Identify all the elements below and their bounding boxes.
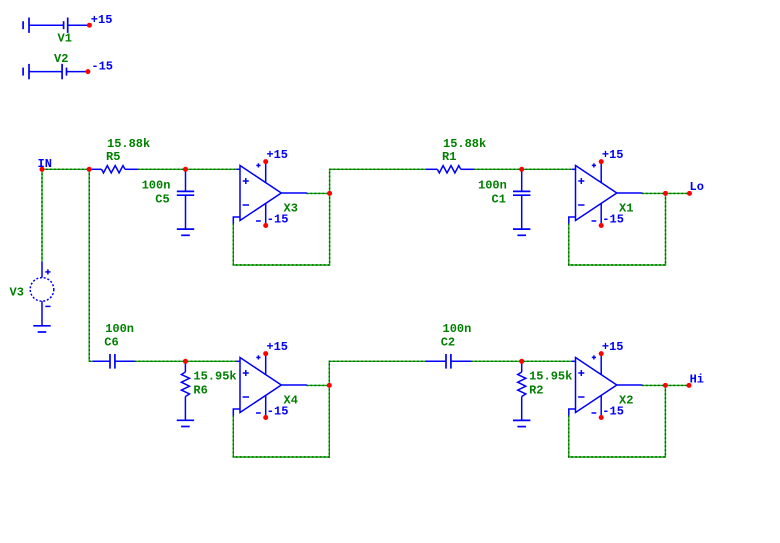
ground (C5) (177, 229, 194, 235)
node Lo terminal (687, 191, 692, 196)
power node +15 (X4) (263, 351, 268, 356)
wire X3 feedback loop (233, 193, 329, 265)
capacitor C2 (425, 354, 471, 369)
op-amp X1 (569, 162, 643, 226)
wire X3 output lead to node (307, 192, 330, 194)
voltage source V3 (30, 261, 54, 326)
op-amp X3 (233, 162, 306, 226)
wire X4 output node up to second stage (329, 361, 425, 385)
node X4 output (327, 383, 332, 388)
node X3 output (327, 191, 332, 196)
node Hi terminal (687, 383, 692, 388)
svg-text:100n: 100n (443, 322, 472, 336)
resistor R2 (518, 361, 526, 420)
wire C2 to X2 input (471, 360, 572, 362)
resistor R6 (181, 361, 189, 420)
svg-text:X3: X3 (284, 202, 298, 216)
ground (V3) (33, 326, 50, 332)
svg-text:R2: R2 (529, 384, 543, 398)
wire X4 output lead to node (307, 384, 330, 386)
node C2/R2 (X2 input) (519, 359, 524, 364)
wire X1 output to Lo terminal (666, 192, 690, 194)
node X2 output (663, 383, 668, 388)
op-amp X4 (233, 354, 306, 418)
junction node (IN bus split) (87, 167, 92, 172)
svg-text:15.88k: 15.88k (443, 137, 486, 151)
svg-text:X1: X1 (619, 202, 633, 216)
ground (R6) (177, 420, 194, 426)
svg-text:X4: X4 (284, 394, 298, 408)
node R1/C1 (X1 input) (519, 167, 524, 172)
svg-text:V1: V1 (58, 32, 72, 46)
wire X2 feedback loop (569, 385, 666, 457)
wire X3 output node up to second stage (330, 169, 426, 193)
svg-text:C1: C1 (492, 192, 506, 206)
battery V2 (23, 64, 87, 79)
wire X1 feedback loop (569, 193, 666, 265)
power node +15 (X2) (599, 351, 604, 356)
svg-text:100n: 100n (105, 322, 134, 336)
wire R5 to X3 input (138, 168, 237, 170)
svg-text:V3: V3 (10, 285, 24, 299)
svg-text:100n: 100n (142, 179, 171, 193)
svg-text:+15: +15 (91, 13, 113, 27)
svg-text:C2: C2 (441, 335, 455, 349)
op-amp X2 (569, 354, 643, 418)
node R5/C5 (X3 input) (183, 167, 188, 172)
svg-text:+15: +15 (602, 340, 624, 354)
node X1 output (663, 191, 668, 196)
power node -15 (X2) (599, 415, 604, 420)
wire R1 to X1 input (474, 168, 573, 170)
power node -15 (X3) (263, 223, 268, 228)
svg-text:V2: V2 (54, 52, 68, 66)
capacitor C6 (92, 354, 134, 369)
svg-text:R1: R1 (442, 150, 456, 164)
svg-text:Hi: Hi (690, 372, 704, 386)
svg-text:+15: +15 (602, 148, 624, 162)
svg-text:Lo: Lo (690, 180, 704, 194)
svg-text:+15: +15 (266, 148, 288, 162)
svg-text:15.95k: 15.95k (193, 370, 236, 384)
capacitor C5 (177, 169, 194, 229)
svg-text:-15: -15 (91, 60, 113, 74)
ground (R2) (513, 420, 530, 426)
wire junction to bottom row (89, 169, 92, 361)
svg-text:X2: X2 (619, 394, 633, 408)
svg-text:C5: C5 (155, 192, 169, 206)
svg-text:15.95k: 15.95k (529, 370, 572, 384)
node IN junction (40, 167, 45, 172)
power node -15 (X1) (599, 223, 604, 228)
wire V3 to IN node (41, 169, 43, 261)
power node +15 (X1) (599, 159, 604, 164)
svg-text:+15: +15 (266, 340, 288, 354)
svg-text:R6: R6 (193, 384, 207, 398)
wire X4 feedback loop (233, 385, 329, 457)
capacitor C1 (513, 169, 530, 229)
svg-text:IN: IN (38, 157, 52, 171)
wire X1 output lead to node (642, 192, 666, 194)
ground (C1) (513, 229, 530, 235)
svg-text:C6: C6 (104, 335, 118, 349)
svg-text:15.88k: 15.88k (107, 137, 150, 151)
node +15 (V1 terminal) (87, 23, 92, 28)
svg-text:100n: 100n (478, 179, 507, 193)
resistor R1 (426, 166, 474, 173)
power node +15 (X3) (263, 159, 268, 164)
node C6/R6 (X4 input) (183, 359, 188, 364)
resistor R5 (92, 166, 138, 173)
svg-text:R5: R5 (106, 150, 120, 164)
wire X2 output lead to node (642, 384, 665, 386)
wire IN to junction (42, 168, 92, 170)
battery V1 (23, 18, 88, 33)
power node -15 (X4) (263, 415, 268, 420)
wire C6 to X4 input (135, 360, 237, 362)
node -15 (V2 terminal) (85, 69, 90, 74)
wire X2 output to Hi terminal (665, 384, 689, 386)
